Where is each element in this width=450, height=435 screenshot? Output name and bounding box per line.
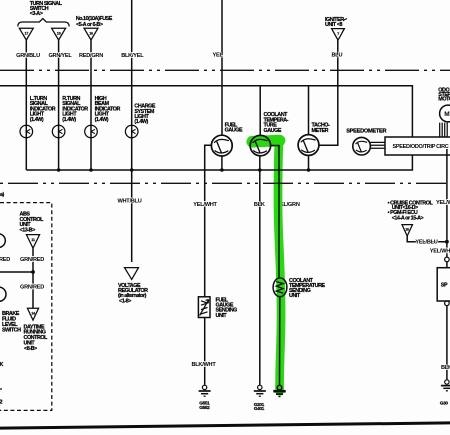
svg-text:BLK: BLK [254,202,265,208]
svg-text:2: 2 [0,400,3,406]
svg-text:(1.4W): (1.4W) [62,117,76,123]
svg-text:<5-A or 6-B>: <5-A or 6-B> [76,22,103,28]
svg-text:18: 18 [57,32,61,36]
svg-text:GAUGE: GAUGE [264,128,282,134]
svg-text:YEL/WHT: YEL/WHT [430,248,450,254]
svg-text:BLU: BLU [332,53,343,59]
svg-text:YEL: YEL [213,53,224,59]
svg-text:BLK/YEL: BLK/YEL [121,53,144,59]
svg-text:GRN/RED: GRN/RED [20,257,44,263]
svg-text:16: 16 [89,32,93,36]
svg-text:<3-A>: <3-A> [30,11,43,17]
svg-text:<13-B>: <13-B> [20,228,36,234]
svg-text:YEL/WHT: YEL/WHT [436,200,450,206]
svg-text:YEL/BLU: YEL/BLU [415,239,437,245]
svg-text:GRN/BLU: GRN/BLU [16,53,40,59]
svg-text:UNIT: UNIT [289,293,301,299]
svg-text:26: 26 [405,228,409,232]
svg-text:BLK/WHT: BLK/WHT [191,362,216,368]
svg-text:M: M [444,111,449,118]
svg-text:(1.4W): (1.4W) [134,119,148,125]
svg-text:<1-8>: <1-8> [119,298,131,304]
svg-text:RED/GRN: RED/GRN [79,53,103,59]
svg-text:GAUGE: GAUGE [225,128,243,134]
svg-text:UNIT: UNIT [216,313,228,319]
svg-text:GRN/RED: GRN/RED [20,285,44,291]
svg-text:YEL/WHT: YEL/WHT [193,202,217,208]
svg-text:7: 7 [337,32,339,36]
svg-text:<14-A or 15-A>: <14-A or 15-A> [392,216,424,222]
svg-text:a): a) [0,192,5,198]
svg-text:SP: SP [441,283,448,289]
svg-text:G401: G401 [254,406,265,412]
svg-text:BLK: BLK [441,365,450,371]
svg-text:<8-B>: <8-B> [24,346,37,352]
svg-text:SWITCH: SWITCH [2,327,21,333]
svg-text:UNIT <8: UNIT <8 [325,22,343,28]
svg-text:SPEED/ODO/TRIP CIRC: SPEED/ODO/TRIP CIRC [393,144,449,150]
svg-text:G552: G552 [199,405,210,411]
svg-text:K: K [0,362,4,368]
svg-text:11: 11 [31,238,35,242]
svg-text:GRN/YEL: GRN/YEL [48,53,72,59]
svg-text:WHT/BLU: WHT/BLU [117,199,141,205]
svg-text:(1.4W): (1.4W) [95,117,109,123]
svg-text:(1.4W): (1.4W) [30,117,44,123]
svg-text:MOTO: MOTO [438,97,450,103]
svg-text:RED: RED [0,257,10,263]
svg-text:METER: METER [312,128,329,134]
svg-text:SPEEDOMETER: SPEEDOMETER [346,129,386,135]
svg-text:G30: G30 [440,400,449,406]
svg-text:17: 17 [24,32,28,36]
